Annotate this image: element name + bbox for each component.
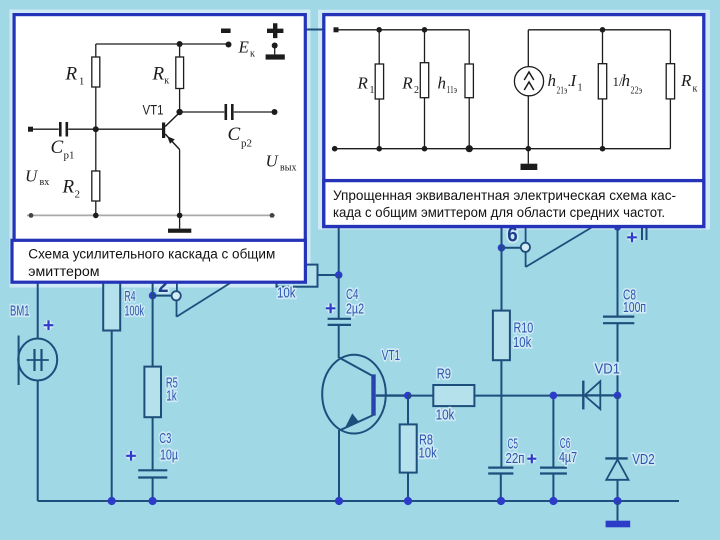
svg-text:R: R bbox=[401, 74, 413, 93]
current source h21e I1 bbox=[514, 30, 543, 149]
svg-text:BM1: BM1 bbox=[10, 304, 30, 320]
resistor Rk (panel 2) bbox=[666, 30, 674, 149]
panel 2 caption box bbox=[324, 181, 704, 227]
svg-text:100k: 100k bbox=[125, 304, 145, 320]
plus mark at C3 bbox=[126, 451, 136, 461]
wire input to Cp1 bbox=[33, 128, 59, 130]
svg-text:вых: вых bbox=[280, 163, 296, 174]
panel 1 caption box bbox=[12, 240, 305, 282]
svg-text:VD1: VD1 bbox=[595, 362, 621, 378]
svg-text:10k: 10k bbox=[513, 335, 532, 351]
resistor R1 (panel 2) bbox=[375, 30, 383, 149]
svg-text:22п: 22п bbox=[506, 451, 525, 467]
terminal dot rail left bbox=[29, 213, 34, 218]
junction dot Rk top bbox=[177, 41, 183, 47]
resistor h11e bbox=[465, 30, 473, 149]
wire node 6 column upper bbox=[501, 228, 503, 248]
battery plus terminal dot bbox=[272, 43, 278, 49]
junction dots R1 (panel 2) bbox=[376, 27, 382, 33]
wire 10k resistor to C4 node bbox=[318, 274, 339, 276]
ground symbol (panel 2) bbox=[521, 149, 538, 170]
panel 2 pale fringe bbox=[318, 10, 710, 230]
resistor Rk (panel 1) bbox=[176, 44, 184, 112]
resistor 10k (feedback, half hidden) bbox=[277, 265, 318, 287]
ground symbol (bottom right) bbox=[606, 501, 631, 527]
wire node 6 pin stub (up, hidden) bbox=[525, 226, 527, 244]
svg-text:C: C bbox=[228, 124, 241, 145]
transistor VT1 (panel 1) bbox=[162, 113, 180, 216]
svg-text:11э: 11э bbox=[447, 85, 458, 96]
svg-text:VT1: VT1 bbox=[382, 348, 401, 364]
output terminal dot bbox=[272, 109, 278, 115]
svg-text:када с общим эмиттером для обл: када с общим эмиттером для области средн… bbox=[333, 205, 665, 220]
panel 1 pale fringe bbox=[10, 10, 311, 288]
junction dot h11e bottom bbox=[466, 145, 473, 152]
resistor 1/h22e bbox=[598, 30, 606, 149]
panel 2 frame (equivalent circuit) bbox=[324, 15, 704, 227]
svg-text:Схема усилительного каскада с: Схема усилительного каскада с общим bbox=[28, 247, 275, 263]
microphone BM1 bbox=[18, 283, 57, 501]
plus mark at C4 bbox=[326, 304, 336, 314]
junction dot collector (panel 1) bbox=[176, 109, 182, 115]
resistor R4 bbox=[103, 270, 120, 501]
svg-text:VT1: VT1 bbox=[143, 103, 164, 118]
svg-text:22э: 22э bbox=[631, 86, 643, 97]
capacitor C3 bbox=[138, 470, 167, 501]
svg-text:R: R bbox=[62, 177, 75, 198]
svg-text:4µ7: 4µ7 bbox=[559, 450, 577, 466]
plus mark at BM1 bbox=[44, 320, 54, 330]
wire bottom rail (panel 2) bbox=[335, 148, 671, 150]
node 6 junction dot bbox=[498, 244, 506, 252]
svg-text:1k: 1k bbox=[166, 388, 177, 404]
svg-text:2µ2: 2µ2 bbox=[346, 302, 364, 318]
svg-text:10µ: 10µ bbox=[160, 448, 178, 464]
diode VD2 bbox=[605, 395, 628, 501]
wire collector to Cp2 bbox=[180, 111, 225, 113]
wire C4 node down bbox=[338, 275, 340, 319]
junction dot base node bbox=[404, 392, 412, 400]
capacitor Cp1 bbox=[60, 122, 67, 137]
svg-text:E: E bbox=[238, 38, 250, 57]
svg-text:h: h bbox=[438, 74, 447, 93]
op-amp U2 body edge (hidden behind panel 2) bbox=[526, 226, 594, 267]
svg-text:C3: C3 bbox=[159, 431, 171, 447]
wire common rail (panel 1, gray) bbox=[27, 214, 275, 216]
svg-text:10k: 10k bbox=[277, 286, 296, 302]
transistor VT1 (background) bbox=[322, 355, 408, 501]
svg-text:2: 2 bbox=[75, 189, 81, 201]
svg-text:21э: 21э bbox=[557, 85, 568, 96]
resistor R10 bbox=[493, 248, 510, 468]
plus mark at C7 bbox=[627, 233, 637, 243]
svg-text:C: C bbox=[51, 137, 64, 158]
capacitor C8 bbox=[603, 317, 634, 396]
svg-text:2: 2 bbox=[414, 85, 419, 96]
capacitor C7 (top right, partial) bbox=[642, 226, 647, 240]
wire C4 node up to panel 2 bbox=[338, 228, 340, 275]
svg-text:U: U bbox=[25, 167, 39, 186]
resistor R5 bbox=[144, 367, 161, 418]
junction dot current source bottom bbox=[526, 146, 532, 152]
svg-text:к: к bbox=[164, 76, 169, 87]
svg-text:к: к bbox=[693, 84, 698, 95]
wire VD1-left node down to C6 bbox=[552, 395, 554, 467]
battery common bar bbox=[266, 46, 285, 60]
terminal dot bottom left (panel 2) bbox=[332, 146, 338, 152]
svg-text:р1: р1 bbox=[64, 150, 75, 162]
svg-text:10k: 10k bbox=[436, 408, 455, 424]
node 2 wire to pin bbox=[153, 295, 172, 297]
plus mark at C6 bbox=[527, 454, 536, 463]
op-amp U1 body edge (hidden behind panel 1) bbox=[177, 280, 236, 317]
junction dot C4 node bbox=[335, 271, 343, 279]
svg-text:100п: 100п bbox=[623, 300, 646, 316]
wire top rail left segment (panel 2) bbox=[339, 29, 470, 31]
svg-text:R9: R9 bbox=[437, 367, 451, 383]
svg-text:VD2: VD2 bbox=[632, 452, 655, 468]
ground symbol (panel 1) bbox=[168, 215, 191, 232]
wire R5 to C3 bbox=[152, 417, 154, 470]
svg-text:Упрощенная эквивалентная элект: Упрощенная эквивалентная электрическая с… bbox=[333, 188, 676, 203]
svg-text:h: h bbox=[548, 71, 557, 90]
capacitor C5 bbox=[488, 468, 513, 501]
resistor R9 bbox=[408, 385, 554, 406]
svg-text:р2: р2 bbox=[241, 138, 252, 150]
diode VD1 bbox=[553, 381, 617, 410]
wire C8 column upper bbox=[617, 227, 619, 317]
svg-text:U: U bbox=[266, 152, 280, 171]
svg-text:R: R bbox=[152, 64, 165, 85]
svg-text:R: R bbox=[65, 63, 78, 84]
op-amp U1 input lead bbox=[176, 300, 178, 317]
svg-text:1: 1 bbox=[578, 83, 583, 94]
svg-text:вх: вх bbox=[40, 177, 50, 188]
terminal dot supply bbox=[226, 42, 232, 48]
wire top rail (panel 1) bbox=[96, 43, 229, 45]
svg-text:R: R bbox=[357, 74, 369, 93]
node 6 wire to pin bbox=[502, 247, 522, 249]
capacitor C4 bbox=[328, 319, 351, 358]
resistor R8 bbox=[400, 396, 417, 501]
input terminal (panel 2) bbox=[334, 27, 339, 32]
junction dot emitter rail bbox=[177, 213, 183, 219]
junction dot R2 bottom bbox=[93, 213, 99, 219]
junction dots on ground rail bbox=[108, 497, 116, 505]
wire node 2 pin stub (up, hidden) bbox=[176, 282, 178, 291]
resistor R1 (panel 1) bbox=[92, 44, 100, 129]
junction dot base divider node bbox=[93, 126, 99, 132]
capacitor Cp2 bbox=[226, 104, 233, 120]
battery Ek minus bar bbox=[221, 29, 231, 34]
battery Ek plus mark bbox=[267, 23, 283, 38]
panel 1 frame (amplifier schematic) bbox=[14, 15, 305, 241]
capacitor C6 bbox=[540, 468, 567, 501]
resistor R2 (panel 2) bbox=[420, 30, 428, 149]
wire top rail right segment (panel 2) bbox=[528, 29, 670, 31]
terminal dot rail right bbox=[270, 213, 275, 218]
resistor R2 (panel 1) bbox=[92, 129, 100, 215]
wire Cp2 to output bbox=[234, 111, 275, 113]
node 2 pin circle bbox=[172, 291, 181, 300]
node 6 pin circle bbox=[521, 243, 530, 252]
wire Cp1 to base bbox=[68, 128, 162, 130]
junction dot VD1 left bbox=[550, 392, 558, 400]
svg-text:1: 1 bbox=[370, 85, 375, 96]
svg-text:R: R bbox=[680, 71, 692, 90]
junction dot 1/h22e bottom bbox=[600, 146, 606, 152]
node 2 junction dot bbox=[149, 292, 157, 300]
svg-text:h: h bbox=[622, 71, 631, 90]
junction dot 1/h22e top bbox=[600, 27, 606, 33]
op-amp U2 input lead bbox=[525, 252, 527, 267]
wire ground rail (bottom) bbox=[38, 500, 679, 502]
input terminal (panel 1) bbox=[28, 127, 33, 132]
junction dot VD1 right bbox=[614, 392, 622, 400]
svg-text:эмиттером: эмиттером bbox=[28, 264, 99, 280]
wire node 2 column to R5 bbox=[152, 296, 154, 367]
svg-text:к: к bbox=[250, 49, 255, 60]
wire between panel 1 and panel 2 (hidden net) bbox=[303, 29, 328, 31]
junction dots R2 (panel 2) bbox=[422, 27, 428, 33]
svg-text:1: 1 bbox=[79, 76, 85, 88]
junction dot C8 top bbox=[614, 224, 621, 231]
svg-text:10k: 10k bbox=[419, 446, 438, 462]
wire node 2 column upper bbox=[152, 283, 154, 296]
